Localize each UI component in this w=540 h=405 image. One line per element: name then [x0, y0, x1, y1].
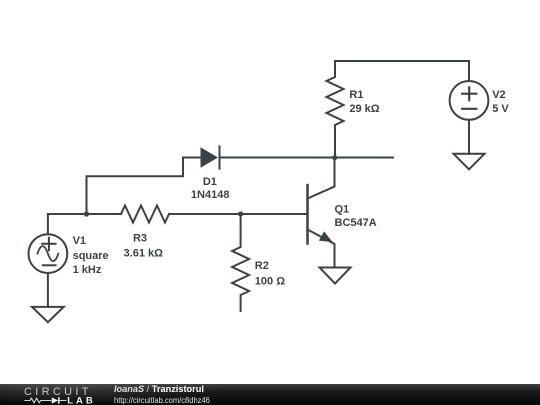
- svg-text:29 kΩ: 29 kΩ: [349, 103, 379, 115]
- resistor R2: [232, 214, 285, 311]
- resistor R1: [327, 61, 380, 158]
- footer url: [114, 395, 210, 405]
- wire V1 to ground: [47, 273, 49, 307]
- node collector junction: [332, 155, 337, 160]
- wire base rail right: [169, 213, 307, 215]
- voltage source V2: [450, 61, 510, 120]
- svg-text:BC547A: BC547A: [335, 217, 377, 229]
- wire diode anode lead: [87, 158, 202, 215]
- svg-text:V2: V2: [492, 89, 505, 101]
- transistor Q1: [308, 158, 377, 268]
- node R2 junction: [238, 211, 243, 216]
- svg-text:R1: R1: [349, 89, 363, 101]
- svg-text:R2: R2: [255, 260, 269, 272]
- voltage source V1: [29, 214, 109, 276]
- wire collector rail: [220, 157, 394, 159]
- ground Q1: [320, 268, 351, 284]
- wire base rail left: [48, 213, 121, 215]
- svg-text:5 V: 5 V: [492, 103, 509, 115]
- node base-left junction: [84, 211, 89, 216]
- logo CircuitLab: [0, 383, 110, 405]
- wire V2 to ground: [468, 120, 470, 154]
- ground V2: [454, 154, 485, 170]
- wire top rail: [335, 60, 469, 62]
- svg-text:LAB: LAB: [67, 395, 96, 405]
- diode D1: [191, 146, 230, 201]
- svg-text:D1: D1: [203, 176, 217, 188]
- svg-text:Q1: Q1: [335, 204, 350, 216]
- footer title: [114, 384, 204, 394]
- footer bar: [0, 384, 540, 405]
- resistor R3: [121, 206, 169, 260]
- ground V1: [32, 307, 64, 322]
- svg-text:1 kHz: 1 kHz: [73, 264, 102, 276]
- svg-text:square: square: [73, 250, 109, 262]
- svg-text:3.61 kΩ: 3.61 kΩ: [124, 247, 164, 259]
- svg-text:V1: V1: [73, 235, 86, 247]
- svg-text:1N4148: 1N4148: [191, 189, 230, 201]
- svg-text:R3: R3: [133, 233, 147, 245]
- svg-text:100 Ω: 100 Ω: [255, 275, 285, 287]
